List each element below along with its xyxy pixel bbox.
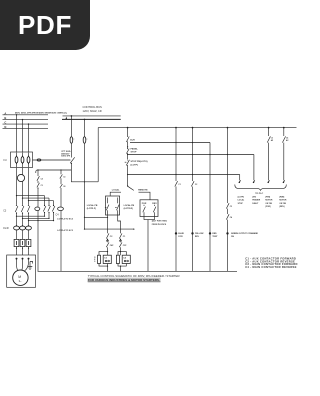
label LOCAL PB LOTR-F: [87, 204, 98, 210]
node OLR C top: [28, 225, 29, 226]
wire phase C drop: [28, 124, 30, 152]
node rev tap B: [22, 198, 23, 199]
brace TO PLC: [235, 185, 286, 191]
contact STOP PB LOTO: [125, 160, 130, 166]
node rail 176: [175, 127, 177, 129]
node 176 on 174: [175, 174, 176, 175]
svg-text:C4F: C4F: [110, 244, 114, 247]
terminal PLC 3: [268, 180, 270, 183]
label C3 FWI: [271, 138, 274, 142]
svg-text:FOR: FOR: [178, 236, 183, 238]
wire PLC drop XF: [253, 155, 255, 181]
wire phase B drop: [22, 120, 24, 152]
svg-text:LOCAL PB: LOCAL PB: [87, 204, 98, 207]
local PB box: [106, 196, 120, 215]
node col1 T: [107, 251, 108, 252]
wire left edge: [97, 128, 99, 182]
title underline: [88, 281, 161, 283]
node aux line col61: [60, 169, 61, 170]
PDF badge: [0, 0, 90, 50]
svg-text:(LOTR-R): (LOTR-R): [124, 208, 134, 210]
wire LOTR1: [85, 216, 108, 218]
wire selector stem: [127, 174, 129, 186]
svg-text:C4: C4: [56, 214, 60, 217]
wire PLC drop RWI lower: [283, 143, 285, 181]
resistor RES2: [116, 255, 119, 263]
resistor RES1: [98, 255, 101, 263]
svg-text:C4: C4: [230, 216, 232, 219]
node aux line col38: [37, 169, 38, 170]
wire rev return 1: [17, 215, 45, 217]
svg-text:MOTOR: MOTOR: [279, 200, 287, 202]
wire remote merge: [144, 217, 155, 272]
node col1 rejoin: [107, 266, 108, 267]
wire lamp column 176 upper: [175, 128, 177, 181]
contact K2 col38: [37, 183, 40, 188]
svg-text:C4: C4: [123, 257, 127, 260]
wire col61 upper: [60, 170, 62, 174]
wire col1 to rail: [107, 264, 109, 272]
wire below DLR: [127, 142, 129, 149]
wire DLR drop: [127, 128, 129, 137]
coil C3 box: [103, 255, 111, 263]
node OLR B top: [22, 225, 23, 226]
svg-text:STOP PB(LOTO): STOP PB(LOTO): [131, 161, 148, 163]
node tap A: [16, 114, 17, 115]
fused disconnect FU box: [11, 152, 33, 168]
node drop2 crossing: [84, 181, 85, 182]
node coil col1 LOTR: [107, 217, 108, 218]
wire bypass B: [128, 154, 254, 156]
chevron col1: [106, 239, 109, 241]
contact C3 on FWI: [267, 136, 270, 142]
contactor C4 contact 1: [43, 205, 46, 213]
svg-text:RED: RED: [212, 233, 217, 235]
svg-text:E: E: [94, 259, 95, 261]
wire motor lead B: [21, 259, 24, 271]
wire phase C to OLR: [28, 213, 30, 255]
label stack LOTP: [238, 196, 245, 204]
node motor lead C: [28, 258, 30, 260]
Pn arrow: [66, 117, 68, 120]
coil oval left: [35, 207, 40, 211]
node 192 on 174: [192, 174, 193, 175]
wire col61 mid: [60, 178, 62, 207]
wire rev return 2: [23, 217, 50, 219]
contactor C4 contact 3: [52, 205, 55, 213]
wire phase B to OLR: [22, 213, 24, 255]
svg-text:C2: C2: [195, 184, 197, 186]
wire phase A to OLR: [16, 213, 18, 255]
label RED TEST: [212, 233, 218, 238]
node motor lead B: [22, 258, 24, 260]
svg-text:FU: FU: [4, 159, 7, 162]
terminal PLC 2: [253, 180, 255, 183]
node return A: [16, 216, 17, 217]
node bypass B 192: [192, 154, 193, 155]
wire phase A below fuse: [16, 168, 18, 205]
selector blade: [128, 186, 134, 190]
node col2 T: [120, 251, 121, 252]
overload OLR B: [20, 226, 26, 230]
contactor C3 contact phase B: [21, 205, 24, 214]
svg-text:(XF): (XF): [252, 196, 256, 198]
contact C1 aux on 176: [175, 181, 178, 186]
svg-text:GREEN OUTPUT COMMAND: GREEN OUTPUT COMMAND: [231, 232, 259, 235]
label stack FWI: [265, 196, 273, 208]
contact C2 aux on 192: [191, 181, 194, 186]
lamp GREEN: [226, 232, 228, 234]
label STOP PB: [131, 161, 148, 166]
heater box B: [20, 239, 25, 246]
title line 2 highlight: [88, 278, 161, 282]
wire lamp column 210: [209, 143, 211, 272]
motor M circle: [13, 270, 28, 285]
control bus line neutral: [62, 118, 121, 120]
svg-text:480V, 60HZ, 3PH (FROM 480V SWG: 480V, 60HZ, 3PH (FROM 480V SWGR BUS 1 BK…: [15, 111, 64, 114]
label C4 RWI: [286, 137, 289, 142]
node rail 127: [127, 127, 129, 129]
wire lamp column 176 lower: [175, 187, 177, 272]
svg-text:ON Y/B: ON Y/B: [279, 203, 286, 205]
svg-text:(REV): (REV): [279, 206, 285, 208]
svg-text:C3: C3: [104, 258, 108, 260]
node tap C: [28, 123, 29, 124]
overload OLR A: [14, 226, 20, 230]
node rail 192: [192, 127, 194, 129]
pushbutton LOTR-F: [105, 198, 109, 216]
label RES1: [94, 257, 96, 263]
coil oval right: [58, 207, 64, 211]
wire LOTR2: [85, 228, 134, 230]
svg-text:STOP: STOP: [131, 152, 137, 154]
wire lamp column 192 upper: [192, 128, 194, 181]
label PANEL STOP: [131, 148, 139, 154]
wire stop chain to junction: [127, 166, 129, 175]
node rev tap C: [28, 200, 29, 201]
bus phase C: [3, 123, 49, 125]
node switch bottom: [71, 163, 72, 164]
terminal PLC 1: [239, 180, 241, 183]
heater box A: [14, 239, 19, 246]
wire res1 rejoin: [99, 264, 108, 267]
node OLR A top: [16, 225, 17, 226]
wire drop 2 down: [84, 143, 86, 229]
wire rev column 1: [44, 196, 46, 217]
svg-text:(ACT FOR / REV): (ACT FOR / REV): [152, 220, 167, 223]
svg-text:(RWI): (RWI): [279, 196, 284, 198]
svg-text:ON: ON: [231, 236, 235, 238]
wire col2 mid: [120, 239, 122, 243]
wire reversing tap C: [29, 200, 54, 202]
node below DLR: [127, 146, 128, 147]
ground symbol: [28, 262, 33, 270]
contact C3 aux on 227: [226, 203, 229, 208]
node heater A out: [16, 248, 17, 249]
bus phase A: [3, 114, 49, 116]
contact col61 a: [60, 175, 63, 179]
CPT text block: [61, 150, 71, 157]
svg-text:C3: C3: [63, 177, 65, 179]
node col2 rejoin: [120, 266, 121, 267]
node drop2 LOTR1: [84, 217, 85, 218]
label ACT FOR REV: [152, 220, 167, 226]
wire phase C below fuse: [28, 168, 30, 205]
hook at line start: [36, 170, 37, 173]
control bus title: [83, 105, 103, 113]
node LOTR2 end: [133, 229, 134, 230]
svg-text:MOTOR: MOTOR: [265, 200, 273, 202]
lamp BLUE FOR: [175, 232, 177, 234]
wire green column mid: [227, 209, 229, 214]
svg-text:LOCAL: LOCAL: [238, 199, 245, 202]
wire motor lead A: [17, 259, 18, 271]
node bypass A 192: [192, 142, 193, 143]
node drop2 LOTR2: [84, 229, 85, 230]
svg-text:M: M: [18, 275, 21, 279]
svg-text:FOR VARIOUS INDUSTRIES & MOTOR: FOR VARIOUS INDUSTRIES & MOTOR STARTERS.: [88, 278, 160, 282]
svg-text:LOTR-4 TO SC3: LOTR-4 TO SC3: [57, 217, 73, 220]
svg-text:C3: C3: [41, 185, 43, 187]
node return B: [22, 218, 23, 219]
svg-text:ON Y/B: ON Y/B: [265, 203, 272, 205]
node return c3: [53, 220, 54, 221]
chevron col2: [119, 239, 122, 241]
svg-text:LOCAL: LOCAL: [112, 189, 120, 192]
label BLUE FOR: [178, 233, 184, 238]
wire control drop 1: [70, 116, 72, 137]
lamp YELLOW REV: [191, 232, 193, 234]
node tap B: [22, 119, 23, 120]
contact K1 col38: [37, 176, 40, 181]
node rail 268: [268, 127, 270, 129]
fuse FU-B: [21, 153, 24, 168]
wire phase A drop: [16, 115, 18, 152]
svg-text:REMOTE: REMOTE: [138, 190, 148, 192]
wire col1 to T: [107, 247, 109, 255]
meter CT circle: [17, 174, 24, 181]
svg-text:120V, 60HZ, 1Φ: 120V, 60HZ, 1Φ: [83, 109, 102, 113]
overload OLR C: [26, 226, 32, 230]
node bypass B 176: [175, 154, 176, 155]
node return x38: [37, 220, 38, 221]
wire res2 rejoin: [118, 264, 126, 267]
pushbutton LOTR-R: [115, 198, 120, 234]
node control drop 1: [71, 115, 73, 117]
node heater C out: [28, 248, 29, 249]
label YELLOW REV: [195, 233, 204, 238]
wire green column lower: [227, 220, 229, 272]
svg-text:R: R: [94, 257, 96, 259]
wire CPT tap: [33, 159, 71, 161]
node 210 bypassB: [209, 154, 210, 155]
svg-text:C3F: C3F: [123, 245, 127, 247]
heater box C: [26, 239, 31, 246]
wire motor lead C: [25, 259, 29, 271]
wire top rail: [98, 127, 296, 129]
label stack XF: [252, 196, 260, 204]
svg-text:OL/R: OL/R: [3, 227, 9, 230]
switch CB blade: [70, 157, 75, 163]
wire control drop 2: [84, 119, 86, 136]
node chain 174: [127, 174, 128, 175]
node selector pivot: [127, 185, 128, 186]
wire drop 1 lower: [71, 163, 98, 181]
node bypass A 176: [175, 142, 176, 143]
svg-text:YELLOW: YELLOW: [195, 233, 204, 235]
svg-text:LOTR-4 TO SC3: LOTR-4 TO SC3: [57, 229, 73, 232]
label GREEN OUTPUT COMMAND: [231, 232, 259, 238]
svg-text:AX: AX: [286, 139, 289, 142]
wire below panel stop: [127, 154, 129, 160]
bus phase B: [3, 119, 49, 121]
wire res1 branch: [99, 252, 108, 256]
svg-text:FROM PLC/DCS: FROM PLC/DCS: [152, 224, 167, 226]
wire feeder aux horizontal: [37, 169, 72, 171]
node return c1: [44, 216, 45, 217]
contactor C4 contact 2: [48, 205, 51, 213]
net labels A B C N: [4, 111, 6, 129]
svg-text:C4: C4: [41, 177, 43, 180]
wire bypass A: [130, 142, 210, 144]
node bypass B 227: [227, 154, 228, 155]
svg-text:C1: C1: [178, 184, 180, 186]
svg-text:TO PLC: TO PLC: [255, 193, 263, 195]
remote FOR REV box: [140, 200, 158, 217]
fuse FU-A: [15, 153, 18, 168]
contact C4 aux on 227: [226, 214, 229, 219]
svg-text:(LOTP): (LOTP): [131, 165, 139, 167]
svg-text:CONTROL BUS: CONTROL BUS: [83, 105, 103, 109]
svg-text:REV: REV: [195, 236, 200, 238]
wire remote terminal L: [139, 192, 151, 200]
wire rev return 3: [29, 220, 54, 222]
svg-text:C3: C3: [3, 210, 7, 213]
svg-text:S: S: [94, 261, 95, 263]
svg-text:C4 - MAIN CONTACTOR REVERSE: C4 - MAIN CONTACTOR REVERSE: [245, 265, 297, 269]
fuse FU-C: [27, 153, 30, 168]
node rail 227: [227, 127, 229, 129]
contact C4F: [106, 242, 109, 247]
svg-text:3~: 3~: [19, 279, 22, 283]
node control drop 2: [84, 119, 86, 121]
terminal PLC 4: [283, 180, 285, 183]
control bus line hot: [63, 115, 121, 117]
wire col1 mid: [107, 239, 109, 243]
node heater B out: [22, 248, 23, 249]
contact C2 interlock: [106, 233, 109, 238]
wire rev bank column x38: [37, 170, 39, 271]
svg-text:FEEDER: FEEDER: [252, 200, 260, 202]
contact C1 interlock: [119, 233, 122, 238]
label M 3ph: [18, 275, 22, 283]
wire reversing tap A: [17, 195, 45, 197]
svg-text:FOR: FOR: [142, 203, 147, 205]
svg-text:BLUE: BLUE: [178, 233, 184, 235]
svg-text:STOP: STOP: [238, 203, 244, 205]
wire lamp column 192 lower: [192, 187, 194, 272]
wire col2 to T: [120, 247, 122, 255]
node col38 below contacts: [38, 188, 39, 189]
svg-text:C3: C3: [230, 206, 232, 208]
fuse F1: [70, 137, 74, 143]
wire PLC drop RWI upper: [283, 128, 285, 136]
wire PLC drop FWI lower: [268, 143, 270, 181]
svg-text:DLR: DLR: [130, 139, 135, 141]
svg-text:C4: C4: [63, 185, 65, 188]
svg-text:Pn: Pn: [64, 112, 68, 115]
wire drop 1 to switch: [70, 143, 72, 157]
wire col2 to rail: [120, 266, 122, 271]
fuse F2: [83, 137, 87, 143]
contact DLR: [126, 136, 129, 142]
svg-text:TEST: TEST: [212, 236, 218, 238]
fuse on CPT tap: [37, 159, 41, 161]
bus neutral N: [3, 128, 49, 130]
node return c2: [48, 218, 49, 219]
legend contactors: [245, 256, 298, 269]
node rev tap A: [16, 195, 17, 196]
label stack RWI: [279, 196, 287, 208]
contact col61 b: [60, 184, 63, 188]
node rail 283: [283, 127, 285, 129]
svg-text:(LOTP): (LOTP): [238, 196, 245, 198]
node return C: [28, 220, 29, 221]
wire coil col1 upper: [107, 215, 109, 233]
contact C3F: [119, 242, 122, 247]
contact PANEL STOP: [126, 148, 129, 153]
coil C4 box: [122, 255, 130, 263]
label LOCAL PB LOTR-R: [124, 204, 135, 210]
wire rev column 3: [53, 201, 55, 221]
svg-text:LOCAL PB: LOCAL PB: [124, 204, 135, 207]
svg-text:C2: C2: [110, 236, 113, 238]
svg-text:(LOTR-F): (LOTR-F): [87, 208, 96, 210]
svg-text:PANEL: PANEL: [131, 148, 139, 151]
svg-text:(FWI): (FWI): [265, 196, 270, 198]
wire PLC drop FWI upper: [268, 128, 270, 136]
svg-text:60HZ 1PH: 60HZ 1PH: [61, 156, 70, 158]
motor enclosure box: [7, 255, 36, 287]
wire col61 lower: [60, 211, 62, 272]
svg-text:C1: C1: [123, 236, 126, 238]
svg-text:(FOR): (FOR): [265, 206, 271, 208]
node motor lead A: [16, 258, 18, 260]
remote contact REV: [153, 205, 156, 217]
lamp RED TEST: [209, 232, 211, 234]
wire LOTP feed to PLC: [128, 174, 240, 176]
wire bottom rail: [38, 270, 237, 272]
wire res2 branch: [118, 252, 126, 256]
wire green column 227 upper: [227, 128, 229, 203]
wire PLC drop LOTP: [239, 175, 241, 181]
svg-text:FAULT: FAULT: [252, 202, 259, 205]
wire reversing tap B: [23, 197, 50, 199]
remote contact FOR: [143, 205, 146, 217]
contactor C3 contact phase C: [27, 205, 30, 214]
node B tap: [127, 154, 128, 155]
contact C4 on RWI: [282, 136, 285, 142]
wire phase B below fuse: [22, 168, 24, 205]
wire local terminal L: [110, 192, 121, 196]
wire rev column 2: [48, 198, 50, 218]
svg-text:REV: REV: [152, 203, 157, 205]
svg-text:AX: AX: [271, 139, 274, 142]
contactor C3 contact phase A: [15, 205, 18, 214]
